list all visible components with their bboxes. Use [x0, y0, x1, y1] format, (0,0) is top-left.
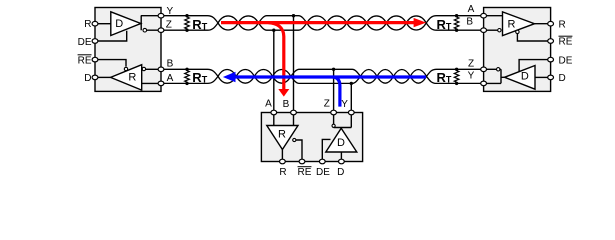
twisted pair (top) wire 1	[164, 16, 481, 31]
svg-text:Z: Z	[468, 58, 474, 69]
pin DE (U3 bottom)	[319, 159, 325, 164]
junction dots RT bottom-right	[455, 68, 458, 71]
twisted pair (bottom) wire 1	[164, 69, 481, 83]
pin Y (U1 right)	[158, 13, 164, 18]
junction dots RT bottom-left	[185, 68, 188, 71]
wire U3 driver output bracket	[334, 113, 352, 128]
svg-text:RE: RE	[298, 167, 312, 178]
pin Z (U1 right)	[158, 28, 164, 33]
wire U2 DE enable	[519, 60, 551, 72]
svg-text:R: R	[278, 128, 286, 140]
wire U3 D input	[340, 152, 342, 162]
wire U1 R-pin to driver input	[95, 23, 111, 25]
blue signal flow along bottom pair	[234, 75, 426, 78]
pin B (U3 top)	[291, 110, 297, 115]
bubble U3 Z inverted output	[332, 124, 335, 127]
wire U2 receiver output	[535, 23, 551, 25]
svg-text:D: D	[521, 71, 529, 83]
svg-text:B: B	[167, 59, 174, 70]
twisted pair (bottom) wire 2	[164, 69, 481, 83]
receiver R (U3)	[267, 126, 298, 150]
resistor RT (top right)	[454, 16, 459, 31]
svg-text:RE: RE	[78, 55, 92, 66]
twisted pair (top) wire 2	[164, 16, 481, 31]
junction node A tap	[272, 29, 275, 32]
svg-text:DE: DE	[78, 37, 92, 48]
bubble U2 receiver enable	[516, 30, 519, 33]
bubble U1 Z inverted output	[143, 28, 147, 32]
wire U2 driver output bracket	[484, 69, 505, 83]
svg-text:R: R	[128, 71, 136, 83]
svg-text:RT: RT	[192, 70, 207, 85]
svg-text:B: B	[283, 99, 290, 110]
receiver R (U2)	[503, 12, 535, 36]
svg-text:Y: Y	[468, 71, 475, 82]
junction node Y tap	[350, 82, 353, 85]
svg-text:Z: Z	[324, 99, 330, 110]
red signal flow along top pair	[221, 21, 414, 24]
receiver R (U1)	[111, 65, 142, 90]
driver D (U1)	[111, 12, 141, 36]
svg-text:R: R	[559, 19, 566, 30]
bubble U2 B inverted input	[498, 29, 501, 32]
wire stub Z drop	[333, 69, 335, 112]
wire U1 RE enable	[95, 60, 126, 67]
svg-text:R: R	[279, 167, 286, 178]
pin R (U1 left)	[92, 21, 98, 26]
wire U3 DE enable	[322, 139, 330, 161]
pin D (U2 right)	[548, 75, 554, 80]
svg-text:A: A	[167, 73, 174, 84]
svg-text:DE: DE	[559, 55, 573, 66]
pin Y (U2 left)	[481, 81, 487, 86]
svg-text:RT: RT	[192, 17, 207, 32]
junction dots RT top-right	[455, 14, 458, 17]
pin R (U3 bottom)	[280, 159, 286, 164]
svg-text:RT: RT	[437, 17, 452, 32]
driver D (U3)	[326, 128, 357, 152]
wire U1 B input stub	[146, 68, 159, 70]
pin B (U2 left)	[481, 28, 487, 33]
pin D (U3 bottom)	[339, 159, 345, 164]
pin A (U2 left)	[481, 13, 487, 18]
svg-text:D: D	[337, 167, 344, 178]
wire U1 DE enable	[95, 31, 127, 41]
svg-text:A: A	[265, 99, 272, 110]
pin A (U3 top)	[271, 110, 277, 115]
wire U3 B input	[293, 113, 295, 126]
svg-text:Y: Y	[341, 99, 348, 110]
resistor RT (bottom left)	[185, 69, 190, 83]
wire U1 receiver output to D pin	[95, 76, 111, 78]
red signal branch down to B	[269, 23, 284, 90]
pin R (U2 right)	[548, 21, 554, 26]
wire U2 RE enable	[517, 34, 550, 41]
pin B (U1 right)	[158, 67, 164, 72]
pin RE (U3 bottom)	[299, 159, 305, 164]
transceiver U3 (middle) body	[261, 113, 362, 162]
pin Z (U3 top)	[331, 110, 337, 115]
wire stub Y drop	[350, 83, 352, 112]
wire U3 receiver output	[281, 150, 283, 162]
svg-text:D: D	[559, 73, 566, 84]
wire U2 B input stub	[484, 29, 498, 31]
wire U3 RE enable	[296, 140, 302, 162]
resistor RT (top left)	[185, 16, 190, 31]
svg-text:B: B	[466, 16, 473, 27]
svg-text:D: D	[115, 18, 123, 30]
bubble U2 Z inverted output	[497, 68, 500, 71]
svg-text:RE: RE	[559, 37, 573, 48]
wire U2 Z stub	[484, 68, 497, 70]
pin RE (U1 left)	[92, 57, 98, 62]
pin Z (U2 left)	[481, 67, 487, 72]
junction node B tap	[292, 14, 295, 17]
blue signal branch from Y	[333, 77, 340, 107]
wire U2 D input	[535, 76, 551, 78]
svg-text:A: A	[468, 4, 475, 15]
pin Y (U3 top)	[348, 110, 354, 115]
svg-text:D: D	[84, 73, 91, 84]
svg-text:D: D	[337, 137, 345, 149]
bubble U1 receiver enable	[124, 67, 127, 70]
resistor RT (bottom right)	[454, 69, 459, 83]
transceiver U1 (left) body	[95, 8, 161, 92]
svg-text:DE: DE	[316, 167, 330, 178]
red arrowhead down	[278, 89, 289, 97]
wire stub A drop	[273, 30, 275, 112]
wire U3 A input	[273, 113, 275, 126]
bubble U1 B inverted input	[142, 67, 145, 70]
red arrowhead right	[414, 18, 427, 27]
pin DE (U1 left)	[92, 39, 98, 44]
junction dots RT top-left	[185, 14, 188, 17]
wire stub B drop	[293, 16, 295, 113]
svg-text:RT: RT	[437, 70, 452, 85]
pin D (U1 left)	[92, 75, 98, 80]
transceiver U2 (right) body	[484, 8, 551, 92]
pin RE (U2 right)	[548, 39, 554, 44]
pin DE (U2 right)	[548, 57, 554, 62]
svg-text:Z: Z	[166, 20, 172, 31]
wire U2 A input	[484, 15, 503, 17]
svg-text:R: R	[84, 19, 91, 30]
bubble U3 receiver enable	[293, 138, 296, 141]
driver D (U2)	[505, 66, 536, 90]
junction node Z tap	[332, 68, 335, 71]
svg-text:R: R	[508, 18, 516, 30]
blue arrowhead left	[223, 72, 236, 83]
wire U1 driver output bracket	[141, 16, 159, 31]
pin A (U1 right)	[158, 81, 164, 86]
wire U1 A input stub	[142, 82, 159, 84]
